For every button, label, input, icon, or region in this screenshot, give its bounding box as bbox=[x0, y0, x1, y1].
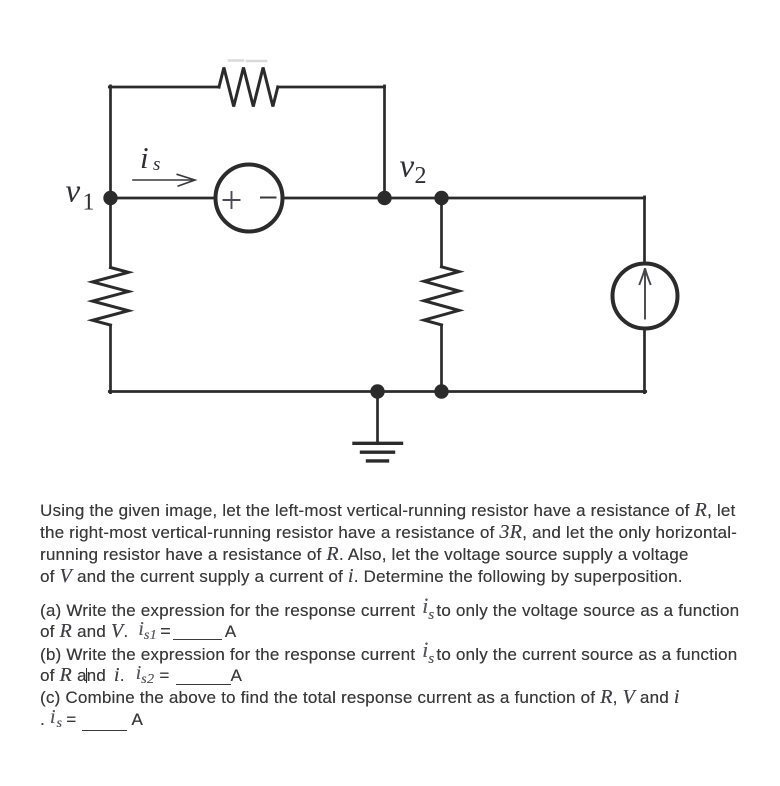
wire: right vertical upper bbox=[643, 197, 646, 264]
svg-text:v: v bbox=[400, 149, 415, 185]
wire: bottom wire bbox=[109, 390, 645, 393]
svg-text:s: s bbox=[153, 154, 160, 175]
resistor R (horizontal, top) bbox=[219, 68, 278, 107]
wire: left vertical lower bbox=[109, 325, 112, 393]
node v2 (top of middle resistor) bbox=[434, 191, 448, 205]
ghost mark above resistor bbox=[229, 59, 266, 62]
resistor 3R (middle vertical) bbox=[424, 267, 459, 325]
wire: drop from top wire to node v2 bbox=[383, 86, 386, 198]
wire: top wire left segment bbox=[109, 86, 219, 89]
node v1 bbox=[103, 191, 117, 205]
wire: middle resistor bottom lead bbox=[440, 325, 443, 392]
wire: middle wire from voltage source to right branch bbox=[282, 197, 645, 200]
wire: top wire right segment bbox=[278, 86, 385, 89]
current label i_s arrow bbox=[133, 174, 195, 186]
current source arrow bbox=[639, 268, 651, 318]
node ground junction bbox=[370, 384, 384, 398]
plus sign of voltage source bbox=[224, 192, 240, 208]
wire: right vertical lower bbox=[643, 329, 646, 393]
wire: left vertical upper bbox=[109, 86, 112, 268]
voltage source U1 bbox=[216, 165, 283, 232]
ground symbol bbox=[354, 443, 402, 461]
wire: middle wire from v1 to voltage source bbox=[111, 197, 217, 200]
svg-text:v: v bbox=[66, 174, 81, 210]
resistor R (left vertical) bbox=[93, 268, 129, 326]
minus sign of voltage source bbox=[261, 197, 276, 199]
node at top of v2 drop bbox=[377, 191, 391, 205]
svg-text:i: i bbox=[140, 140, 149, 175]
wire: middle resistor top lead bbox=[440, 198, 443, 267]
svg-text:2: 2 bbox=[415, 163, 427, 189]
node bottom of middle resistor bbox=[434, 384, 448, 398]
wire: ground stub bbox=[376, 392, 379, 444]
current source I1 bbox=[613, 264, 678, 329]
svg-text:1: 1 bbox=[83, 190, 95, 216]
